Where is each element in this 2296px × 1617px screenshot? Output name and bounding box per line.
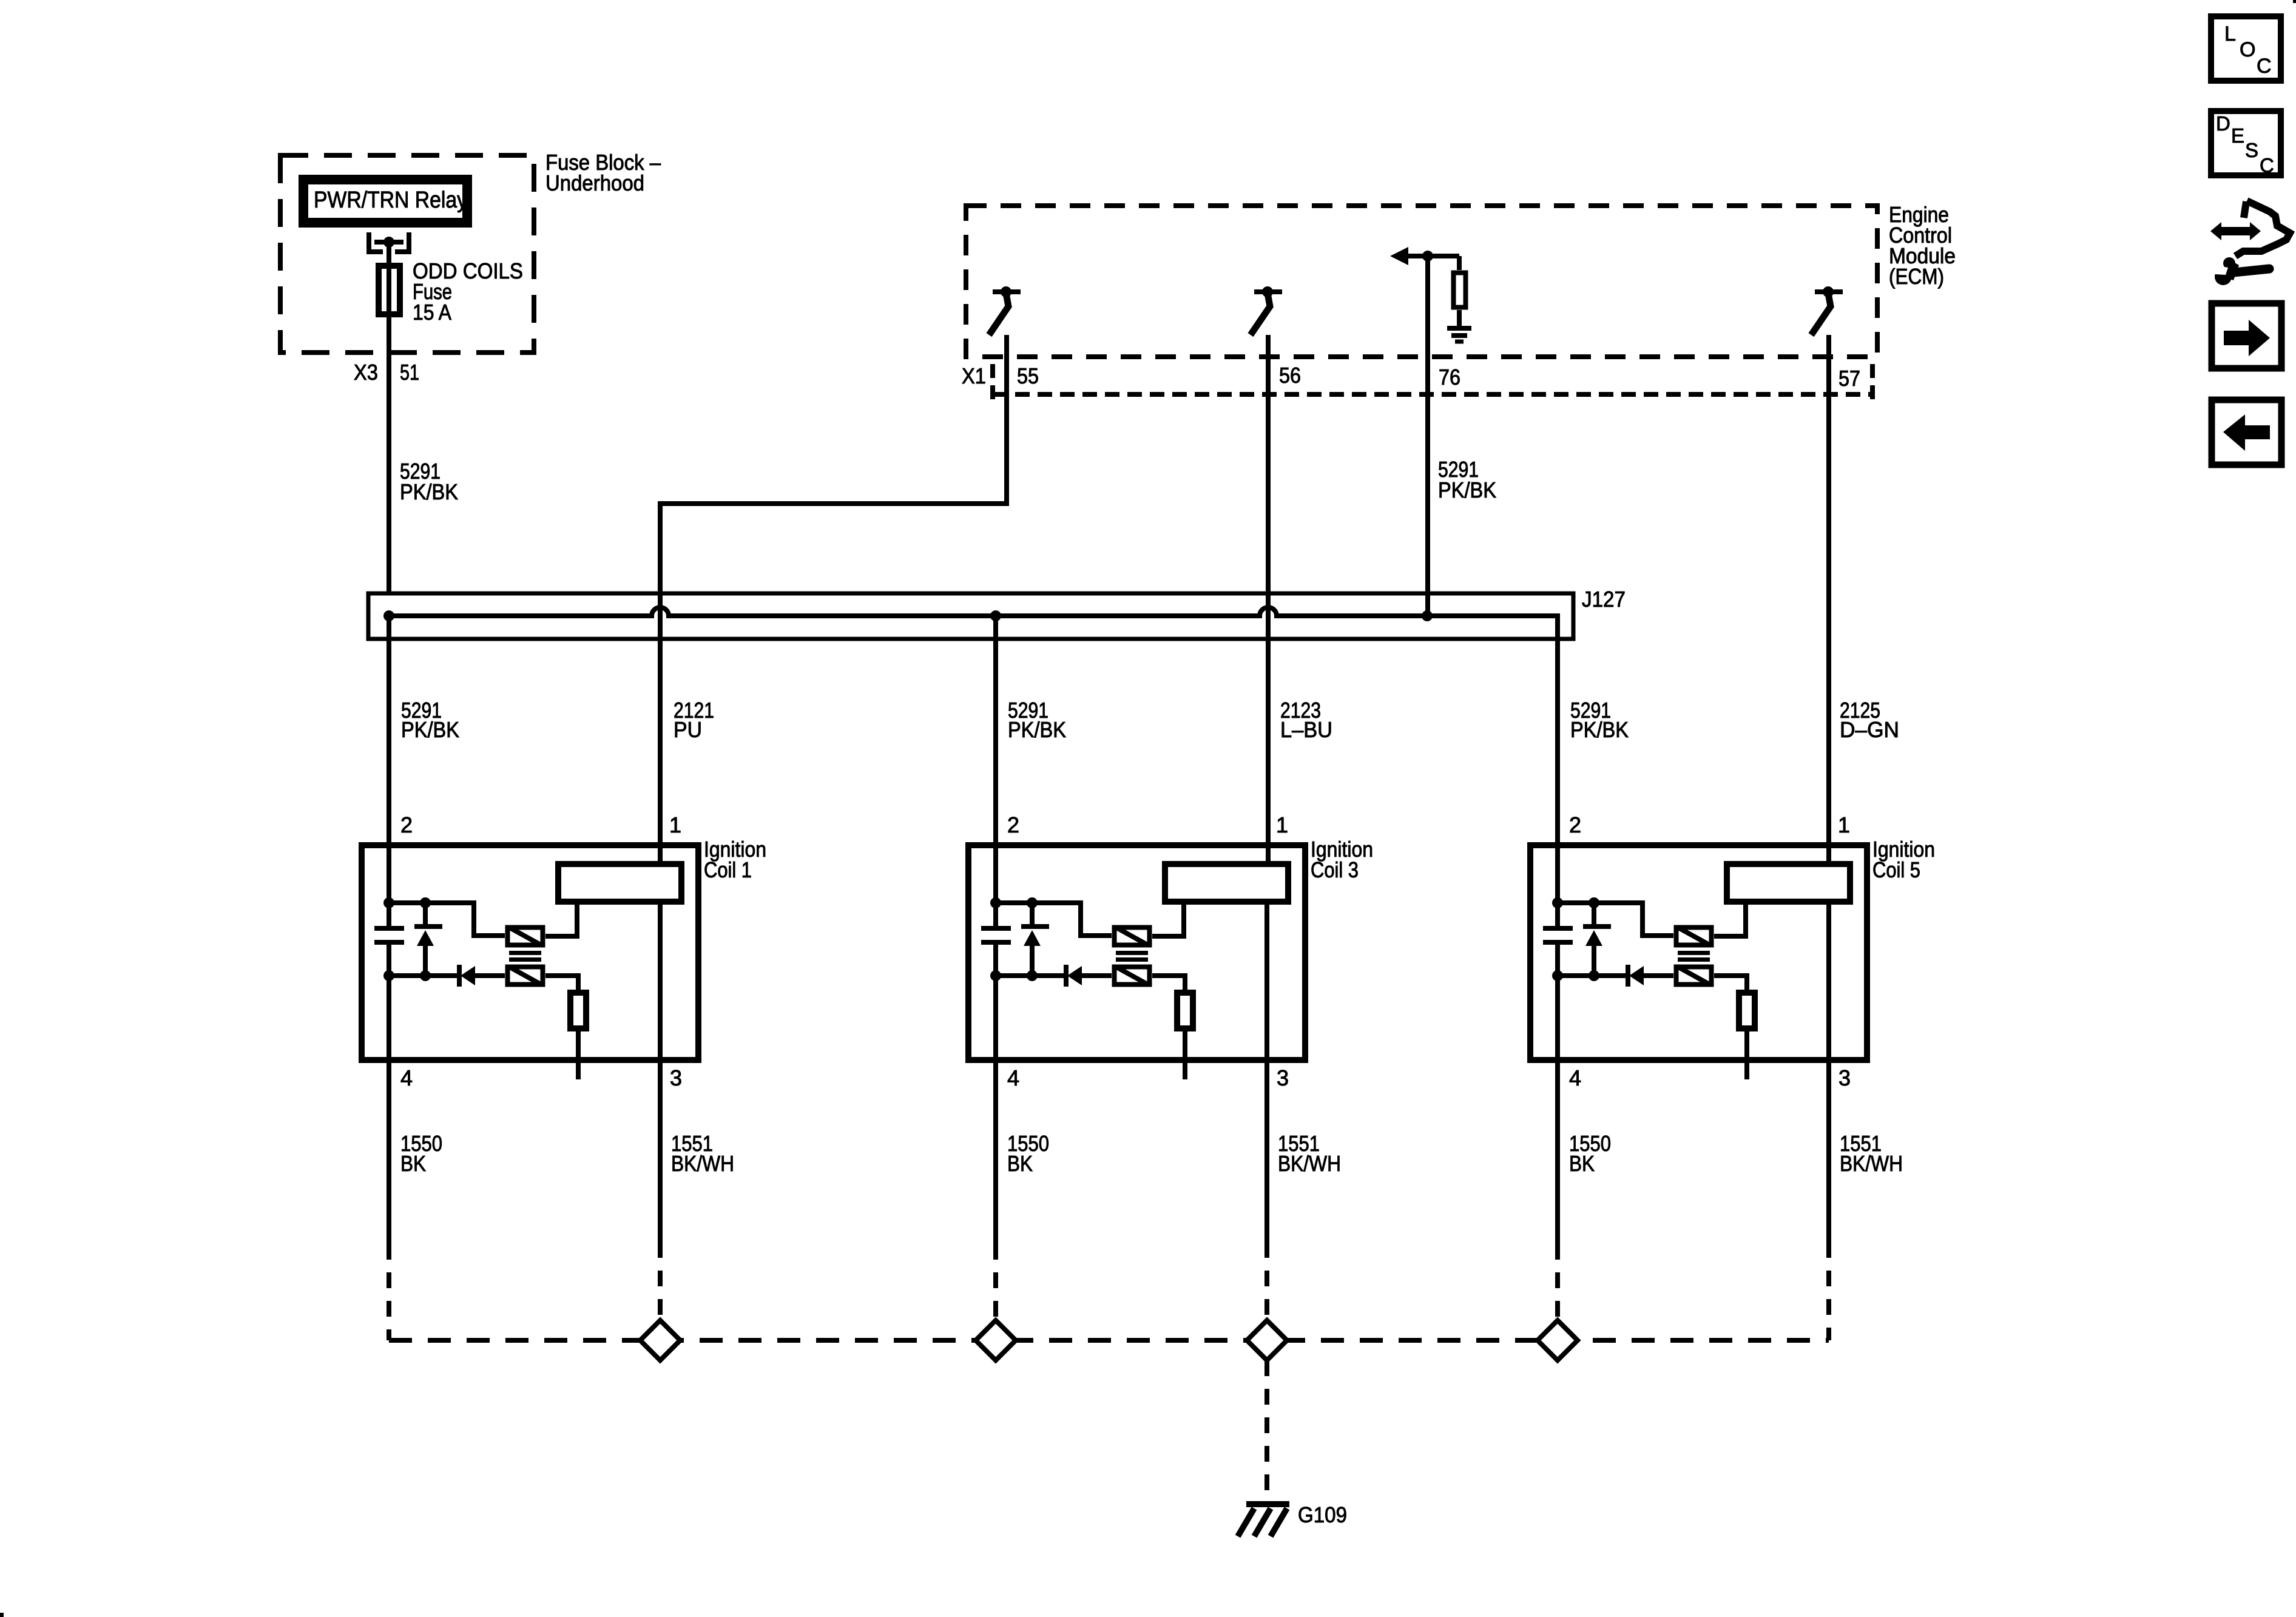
- svg-text:2: 2: [400, 812, 413, 837]
- dashed wire coil 3 pin 4 to ground bus: [993, 1244, 998, 1340]
- label coil 3 pin 1: [1276, 812, 1288, 837]
- relay output terminal bracket: [369, 232, 409, 254]
- svg-text:PWR/TRN Relay: PWR/TRN Relay: [314, 187, 467, 213]
- svg-text:BK/WH: BK/WH: [1278, 1151, 1341, 1176]
- svg-text:L–BU: L–BU: [1280, 717, 1332, 742]
- label coil 1 pin 1: [669, 812, 681, 837]
- icon LOC: [2211, 16, 2281, 81]
- ECM Engine Control Module box: [966, 206, 1877, 357]
- svg-text:PK/BK: PK/BK: [1438, 478, 1496, 502]
- icon diagnostic connector outline: [2235, 201, 2290, 256]
- svg-text:Underhood: Underhood: [545, 170, 644, 195]
- coil winding rectangle coil 5: [1727, 864, 1850, 902]
- wire driver to resistor coil 3: [1152, 976, 1185, 993]
- resistor R coil 1: [570, 993, 586, 1028]
- label 1550 BK coil 3: [1007, 1131, 1049, 1176]
- label Engine Control Module (ECM): [1889, 202, 1956, 289]
- label coil 5 pin 1: [1838, 812, 1850, 837]
- splice pack J127 bus bar with hops: [389, 607, 1558, 661]
- spark output stub coil 3: [1183, 1028, 1187, 1079]
- svg-text:PU: PU: [674, 717, 702, 742]
- wire circuit 2121 PU : ECM 55 to coil1 pin1: [660, 335, 1007, 864]
- svg-text:51: 51: [400, 360, 419, 385]
- driver stage lower coil 5: [1676, 967, 1712, 985]
- relay K1 PWR/TRN Relay: [303, 180, 467, 223]
- svg-text:56: 56: [1279, 363, 1301, 388]
- wire coil 5 pin 4 primary ground: [1555, 942, 1560, 1244]
- fuse F1 ODD COILS 15 A: [379, 266, 400, 314]
- spark output stub coil 5: [1744, 1028, 1749, 1079]
- junction node bus left: [383, 610, 394, 621]
- wire coil 5 pin 3 secondary ground: [1826, 902, 1831, 1242]
- svg-text:S: S: [2245, 139, 2258, 161]
- ignition coil 3 box: [968, 845, 1305, 1060]
- wire driver to winding coil 1: [545, 902, 577, 936]
- label 5291 PK/BK upper right: [1438, 457, 1496, 502]
- junction node coil 5 C: [1552, 970, 1563, 981]
- label 5291 PK/BK coil3 feed: [1008, 698, 1066, 742]
- wire driver to winding coil 5: [1714, 902, 1746, 936]
- svg-text:PK/BK: PK/BK: [401, 717, 459, 742]
- junction node coil 3 A: [990, 897, 1001, 908]
- svg-text:BK: BK: [1007, 1151, 1033, 1176]
- driver stage lower coil 3: [1115, 967, 1150, 985]
- ECM connector row X1: [993, 364, 1872, 402]
- svg-text:Coil 1: Coil 1: [704, 857, 752, 882]
- label 2123 L-BU: [1280, 698, 1332, 742]
- ECM driver output pin 55: [989, 286, 1021, 335]
- label Ignition Coil 5: [1872, 837, 1935, 882]
- label 5291 PK/BK coil5 feed: [1570, 698, 1629, 742]
- wire coil 3 pin 3 secondary ground: [1264, 902, 1269, 1242]
- svg-text:C: C: [2257, 55, 2272, 78]
- wire coil 5 pin 2 feed: [1555, 661, 1560, 928]
- wire circuit 2125 D-GN : ECM 57 to coil5 pin1: [1826, 335, 1831, 864]
- junction node coil 1 C: [383, 970, 394, 981]
- label 1550 BK coil 1: [400, 1131, 442, 1176]
- wire coil 1 lower link: [389, 973, 458, 978]
- page artifact top right: [2293, 0, 2296, 3]
- label coil 3 pin 3: [1277, 1065, 1289, 1090]
- wire circuit 5291 PK/BK : ECM 76 to splice J127: [1425, 256, 1430, 616]
- dashed wire coil 3 pin 3 to ground bus: [1264, 1242, 1269, 1340]
- svg-text:C: C: [2260, 154, 2274, 177]
- splice pack J127 housing: [368, 593, 1573, 639]
- label coil 5 pin 3: [1838, 1065, 1851, 1090]
- junction node coil 5 A: [1552, 897, 1563, 908]
- dashed ground bus 1550/1551 to G109: [389, 1338, 1829, 1343]
- svg-text:D: D: [2216, 112, 2230, 135]
- junction node coil 1 B: [420, 897, 431, 908]
- label pin 55: [1017, 363, 1039, 388]
- junction node coil 3 D: [1027, 970, 1038, 981]
- driver stage upper coil 1: [508, 928, 543, 945]
- diode coil 1: [459, 965, 505, 987]
- svg-text:57: 57: [1838, 366, 1860, 391]
- zener diode coil 1: [414, 903, 442, 976]
- wire coil 1 pin 4 primary ground: [387, 942, 391, 1244]
- connector X3 pin 51 labels: [354, 360, 419, 385]
- label 1551 BK/WH coil 1: [671, 1131, 734, 1176]
- label 1551 BK/WH coil 3: [1278, 1131, 1341, 1176]
- label ODD COILS Fuse 15 A: [413, 258, 523, 325]
- svg-text:1: 1: [1838, 812, 1850, 837]
- label coil 1 pin 4: [400, 1065, 413, 1090]
- icon diagnostic wrench: [2205, 257, 2269, 285]
- dashed wire coil 1 pin 3 to ground bus: [658, 1242, 663, 1340]
- zener diode coil 5: [1583, 903, 1611, 976]
- svg-text:PK/BK: PK/BK: [1008, 717, 1066, 742]
- label coil 3 pin 2: [1007, 812, 1019, 837]
- wire coil 3 lower link: [996, 973, 1065, 978]
- wire driver to resistor coil 1: [545, 976, 578, 993]
- svg-text:2: 2: [1569, 812, 1581, 837]
- label 2125 D-GN: [1840, 698, 1899, 742]
- core bars coil 3: [1116, 953, 1148, 960]
- svg-text:4: 4: [1569, 1065, 1581, 1090]
- svg-text:BK/WH: BK/WH: [671, 1151, 734, 1176]
- dashed wire coil 1 pin 4 to ground bus: [387, 1244, 391, 1340]
- icon diagnostic double arrow: [2210, 222, 2261, 240]
- svg-text:PK/BK: PK/BK: [400, 479, 458, 504]
- wire coil 3 internal top link: [996, 903, 1112, 936]
- junction node bus ECM76 feed: [1422, 610, 1433, 621]
- junction node coil 1 A: [383, 897, 394, 908]
- svg-text:3: 3: [1838, 1065, 1851, 1090]
- label coil 5 pin 4: [1569, 1065, 1581, 1090]
- driver stage upper coil 5: [1676, 928, 1712, 945]
- svg-text:15 A: 15 A: [413, 300, 451, 325]
- resistor R coil 5: [1739, 993, 1755, 1028]
- svg-text:Coil 3: Coil 3: [1311, 857, 1359, 882]
- label 5291 PK/BK coil1 feed: [401, 698, 459, 742]
- junction node coil 3 C: [990, 970, 1001, 981]
- wire coil 1 pin 2 feed: [387, 616, 391, 928]
- core bars coil 5: [1678, 953, 1710, 960]
- core bars coil 1: [509, 953, 541, 960]
- wire coil 1 internal top link: [389, 903, 505, 936]
- label coil 1 pin 2: [400, 812, 413, 837]
- splice S2: [976, 1320, 1016, 1360]
- capacitor C coil 1: [374, 928, 404, 942]
- label 5291 PK/BK upper left: [400, 459, 458, 504]
- icon DESC: [2211, 111, 2281, 177]
- label coil 3 pin 4: [1007, 1065, 1019, 1090]
- ECM driver output pin 57: [1811, 286, 1843, 335]
- svg-text:O: O: [2240, 38, 2255, 61]
- junction node coil 5 B: [1589, 897, 1599, 908]
- driver stage lower coil 1: [508, 967, 543, 985]
- svg-text:76: 76: [1439, 365, 1460, 390]
- splice S3: [1247, 1320, 1287, 1360]
- svg-text:BK: BK: [400, 1151, 426, 1176]
- svg-text:X1: X1: [962, 363, 986, 388]
- svg-text:J127: J127: [1582, 587, 1626, 612]
- spark output stub coil 1: [576, 1028, 581, 1079]
- resistor R coil 3: [1177, 993, 1193, 1028]
- label Ignition Coil 1: [704, 837, 766, 882]
- label 1551 BK/WH coil 5: [1840, 1131, 1903, 1176]
- splice S1: [640, 1320, 680, 1360]
- dashed wire coil 5 pin 3 to ground bus: [1826, 1242, 1831, 1340]
- label Ignition Coil 3: [1311, 837, 1373, 882]
- wire coil 1 pin 3 secondary ground: [658, 902, 663, 1242]
- junction node coil 3 B: [1027, 897, 1038, 908]
- svg-text:2: 2: [1007, 812, 1019, 837]
- label G109: [1298, 1502, 1347, 1527]
- ECM internal bias: arrow to B+: [1390, 247, 1459, 265]
- junction node coil 1 D: [420, 970, 431, 981]
- coil winding rectangle coil 1: [558, 864, 681, 902]
- label pin 56: [1279, 363, 1301, 388]
- label pin 57: [1838, 366, 1860, 391]
- svg-text:55: 55: [1017, 363, 1039, 388]
- label connector X1: [962, 363, 986, 388]
- ignition coil 1 box: [362, 845, 698, 1060]
- capacitor C coil 3: [981, 928, 1011, 942]
- svg-text:L: L: [2224, 22, 2236, 46]
- dashed wire splice to ground G109: [1264, 1360, 1269, 1494]
- icon next arrow: [2212, 303, 2281, 368]
- svg-text:3: 3: [670, 1065, 682, 1090]
- label pin 76: [1439, 365, 1460, 390]
- svg-text:D–GN: D–GN: [1840, 717, 1899, 742]
- svg-text:(ECM): (ECM): [1889, 264, 1944, 289]
- svg-text:E: E: [2231, 124, 2244, 147]
- fuse block underhood box: [280, 155, 534, 353]
- capacitor C coil 5: [1543, 928, 1573, 942]
- svg-text:Coil 5: Coil 5: [1872, 857, 1920, 882]
- svg-text:3: 3: [1277, 1065, 1289, 1090]
- diode coil 5: [1628, 965, 1673, 987]
- ground G109 symbol: [1238, 1504, 1289, 1536]
- label coil 1 pin 3: [670, 1065, 682, 1090]
- wire coil 3 pin 4 primary ground: [993, 942, 998, 1244]
- diode coil 3: [1066, 965, 1112, 987]
- wire coil 5 lower link: [1558, 973, 1627, 978]
- wire coil 3 pin 2 feed: [993, 616, 998, 928]
- splice S4: [1538, 1320, 1578, 1360]
- ECM driver output pin 56: [1251, 286, 1282, 335]
- svg-text:PK/BK: PK/BK: [1570, 717, 1629, 742]
- ECM internal pull resistor R: [1454, 256, 1466, 326]
- coil winding rectangle coil 3: [1165, 864, 1288, 902]
- zener diode coil 3: [1021, 903, 1049, 976]
- ignition coil 5 box: [1530, 845, 1867, 1060]
- wire coil 5 internal top link: [1558, 903, 1673, 936]
- junction node coil 5 D: [1589, 970, 1599, 981]
- wire driver to resistor coil 5: [1714, 976, 1747, 993]
- label coil 5 pin 2: [1569, 812, 1581, 837]
- svg-text:BK: BK: [1569, 1151, 1595, 1176]
- ECM internal ground: [1447, 328, 1471, 342]
- svg-text:1: 1: [1276, 812, 1288, 837]
- svg-text:4: 4: [400, 1065, 413, 1090]
- svg-text:1: 1: [669, 812, 681, 837]
- label Fuse Block Underhood: [545, 150, 661, 195]
- svg-text:4: 4: [1007, 1065, 1019, 1090]
- driver stage upper coil 3: [1115, 928, 1150, 945]
- wire driver to winding coil 3: [1152, 902, 1184, 936]
- icon back arrow: [2212, 400, 2281, 465]
- junction node bus coil3 feed: [990, 610, 1001, 621]
- label 1550 BK coil 5: [1569, 1131, 1611, 1176]
- label 2121 PU: [674, 698, 714, 742]
- label J127: [1582, 587, 1626, 612]
- svg-text:X3: X3: [354, 360, 378, 385]
- page artifact bottom left: [0, 1613, 4, 1617]
- wire relay to fuse to connector X3-51: [387, 242, 391, 593]
- svg-text:G109: G109: [1298, 1502, 1347, 1527]
- svg-text:BK/WH: BK/WH: [1840, 1151, 1903, 1176]
- dashed wire coil 5 pin 4 to ground bus: [1555, 1244, 1560, 1340]
- wire circuit 2123 L-BU : ECM 56 to coil3 pin1: [1266, 335, 1271, 864]
